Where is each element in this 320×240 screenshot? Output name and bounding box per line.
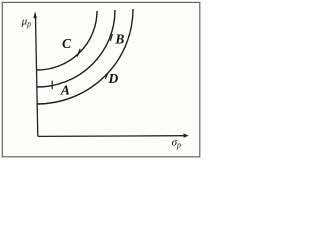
border frame — [2, 2, 200, 156]
x-axis arrowhead — [184, 133, 189, 138]
svg-text:σp: σp — [172, 136, 181, 149]
svg-text:C: C — [62, 36, 72, 51]
tick mark point D — [105, 73, 107, 79]
svg-text:A: A — [60, 83, 70, 98]
x-axis — [38, 135, 184, 138]
indifference curve 3 (through D) — [37, 9, 133, 104]
tick mark point C — [77, 49, 80, 57]
y-axis — [36, 17, 38, 137]
svg-text:B: B — [114, 32, 124, 47]
tick mark point A — [51, 81, 53, 90]
indifference curve 1 (through C) — [37, 11, 97, 70]
tick mark point B — [110, 34, 112, 41]
indifference curve 2 (through A and B) — [37, 10, 115, 87]
svg-text:D: D — [108, 71, 119, 86]
svg-text:μp: μp — [21, 15, 32, 28]
y-axis arrowhead — [33, 11, 37, 18]
